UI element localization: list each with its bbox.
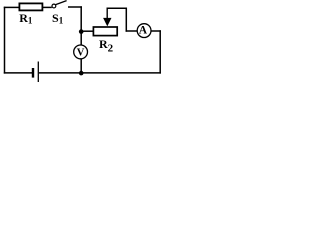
wire R1 to S1 [43,6,52,8]
voltmeter V circle [74,45,88,59]
wiper stem [106,8,108,20]
ammeter A circle [137,24,151,38]
wire into ammeter [126,30,138,32]
wire battery to bottom-left corner [4,72,33,74]
wire right edge vertical [159,30,161,73]
wire vertical S1 corner down to junction [80,6,82,32]
wire voltmeter branch upper [80,32,82,46]
wire left edge vertical [4,7,6,74]
wire vertical down to ammeter level [125,8,127,32]
svg-text:V: V [77,47,85,58]
wire ammeter to right edge [151,30,161,32]
wiper arrow of R2 [103,18,111,27]
rheostat R2 box [93,27,117,36]
wire voltmeter branch lower [80,59,82,74]
svg-text:A: A [139,24,148,36]
node junction top [79,29,84,34]
battery long plate [37,62,39,83]
wire junction to R2 [81,30,93,32]
battery short thick plate [32,68,34,78]
switch S1 pivot circle [52,4,56,8]
wire top-left horizontal [4,6,20,8]
wire wiper top horizontal [107,7,128,9]
resistor R1 [19,3,42,10]
wire bottom right [39,72,161,74]
node junction bottom [79,71,84,76]
switch S1 lever [56,1,67,5]
wire after switch [68,6,82,8]
